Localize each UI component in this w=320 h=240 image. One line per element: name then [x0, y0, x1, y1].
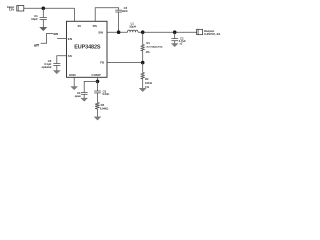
ground (R3)	[94, 117, 101, 120]
svg-text:optional: optional	[42, 65, 52, 69]
label C5 3.3nF	[102, 89, 109, 96]
ground (C6)	[53, 71, 60, 74]
wire COMP to C4	[84, 81, 97, 92]
svg-text:6.04KΩ: 6.04KΩ	[100, 108, 108, 111]
output connector J2	[197, 29, 203, 34]
svg-text:GND: GND	[69, 73, 77, 77]
label R1 26.1K(44.2K) 1%	[146, 41, 163, 54]
wire R2 top	[142, 63, 144, 73]
node C2 junction	[173, 30, 177, 34]
svg-text:R3: R3	[101, 103, 105, 107]
label C1 10uF	[31, 14, 38, 21]
svg-text:3.3V/5V, 2A: 3.3V/5V, 2A	[204, 32, 221, 36]
svg-text:EN: EN	[68, 37, 73, 41]
wire EN	[57, 38, 66, 40]
wire on/off selector	[41, 33, 53, 43]
ground (C4)	[81, 98, 88, 101]
svg-text:3.3nF: 3.3nF	[102, 92, 109, 96]
node FB junction	[141, 61, 145, 65]
capacitor C5	[94, 91, 101, 103]
svg-text:10µF: 10µF	[31, 17, 38, 21]
IC U1 EUP3482S	[67, 21, 108, 77]
svg-text:on: on	[53, 32, 58, 36]
label Output 3.3V/5V 2A	[204, 29, 221, 36]
wire COMP	[97, 77, 99, 81]
inductor L1	[128, 30, 139, 32]
svg-text:R2: R2	[145, 77, 149, 81]
label C2 4.7uF x2	[179, 37, 186, 46]
capacitor C3	[115, 10, 122, 32]
svg-text:FB: FB	[100, 60, 105, 64]
node COMP junction	[96, 80, 100, 84]
label R2 10K 1%	[145, 77, 152, 89]
wire SW	[107, 31, 128, 33]
svg-text:10nF: 10nF	[121, 9, 128, 13]
label R3 6.04K	[100, 103, 108, 110]
svg-text:SW: SW	[98, 30, 103, 34]
svg-text:SS: SS	[68, 54, 72, 58]
svg-text:off: off	[34, 44, 39, 48]
svg-text:1%: 1%	[146, 50, 151, 54]
label L1 10uH	[129, 22, 136, 29]
label C6 0.1uF optional	[42, 59, 52, 69]
ground (GND pin)	[71, 87, 78, 90]
label C3 10nF	[121, 6, 128, 13]
wire BS	[95, 8, 118, 22]
wire GND pin	[73, 77, 75, 86]
capacitor C2	[171, 32, 178, 43]
svg-text:EUP3482S: EUP3482S	[74, 45, 101, 51]
wire COMP to C5	[97, 81, 99, 91]
wire IN drop	[74, 8, 76, 21]
resistor R2	[141, 73, 144, 89]
ground (R2)	[139, 88, 146, 91]
svg-text:10KΩ: 10KΩ	[145, 81, 152, 85]
input connector J1	[17, 6, 24, 12]
svg-text:IN: IN	[78, 24, 82, 28]
node input/C1 junction	[42, 7, 46, 11]
wire input rail	[24, 7, 75, 9]
ground (C1)	[40, 27, 47, 31]
svg-text:10µH: 10µH	[129, 24, 136, 28]
svg-text:open: open	[75, 95, 82, 98]
svg-text:COMP: COMP	[91, 73, 100, 77]
capacitor C6 (soft start)	[53, 64, 60, 71]
resistor R3	[95, 103, 99, 117]
node SW/C3 junction	[117, 30, 121, 34]
label C4 open	[75, 91, 82, 98]
svg-text:12V: 12V	[9, 8, 15, 12]
capacitor C1	[40, 8, 47, 27]
resistor R1	[141, 45, 144, 63]
svg-text:BS: BS	[93, 24, 97, 28]
ground (C2)	[171, 44, 178, 47]
node L1/R1 junction	[141, 30, 145, 34]
wire SS	[57, 56, 67, 64]
wire R1 top	[142, 32, 144, 44]
label Input 12V	[7, 5, 15, 12]
wire output rail	[138, 31, 197, 33]
capacitor C4	[81, 93, 88, 99]
svg-text:R1: R1	[146, 41, 150, 45]
svg-text:26.1KΩ(44.2KΩ): 26.1KΩ(44.2KΩ)	[146, 46, 162, 48]
wire FB	[107, 62, 143, 64]
